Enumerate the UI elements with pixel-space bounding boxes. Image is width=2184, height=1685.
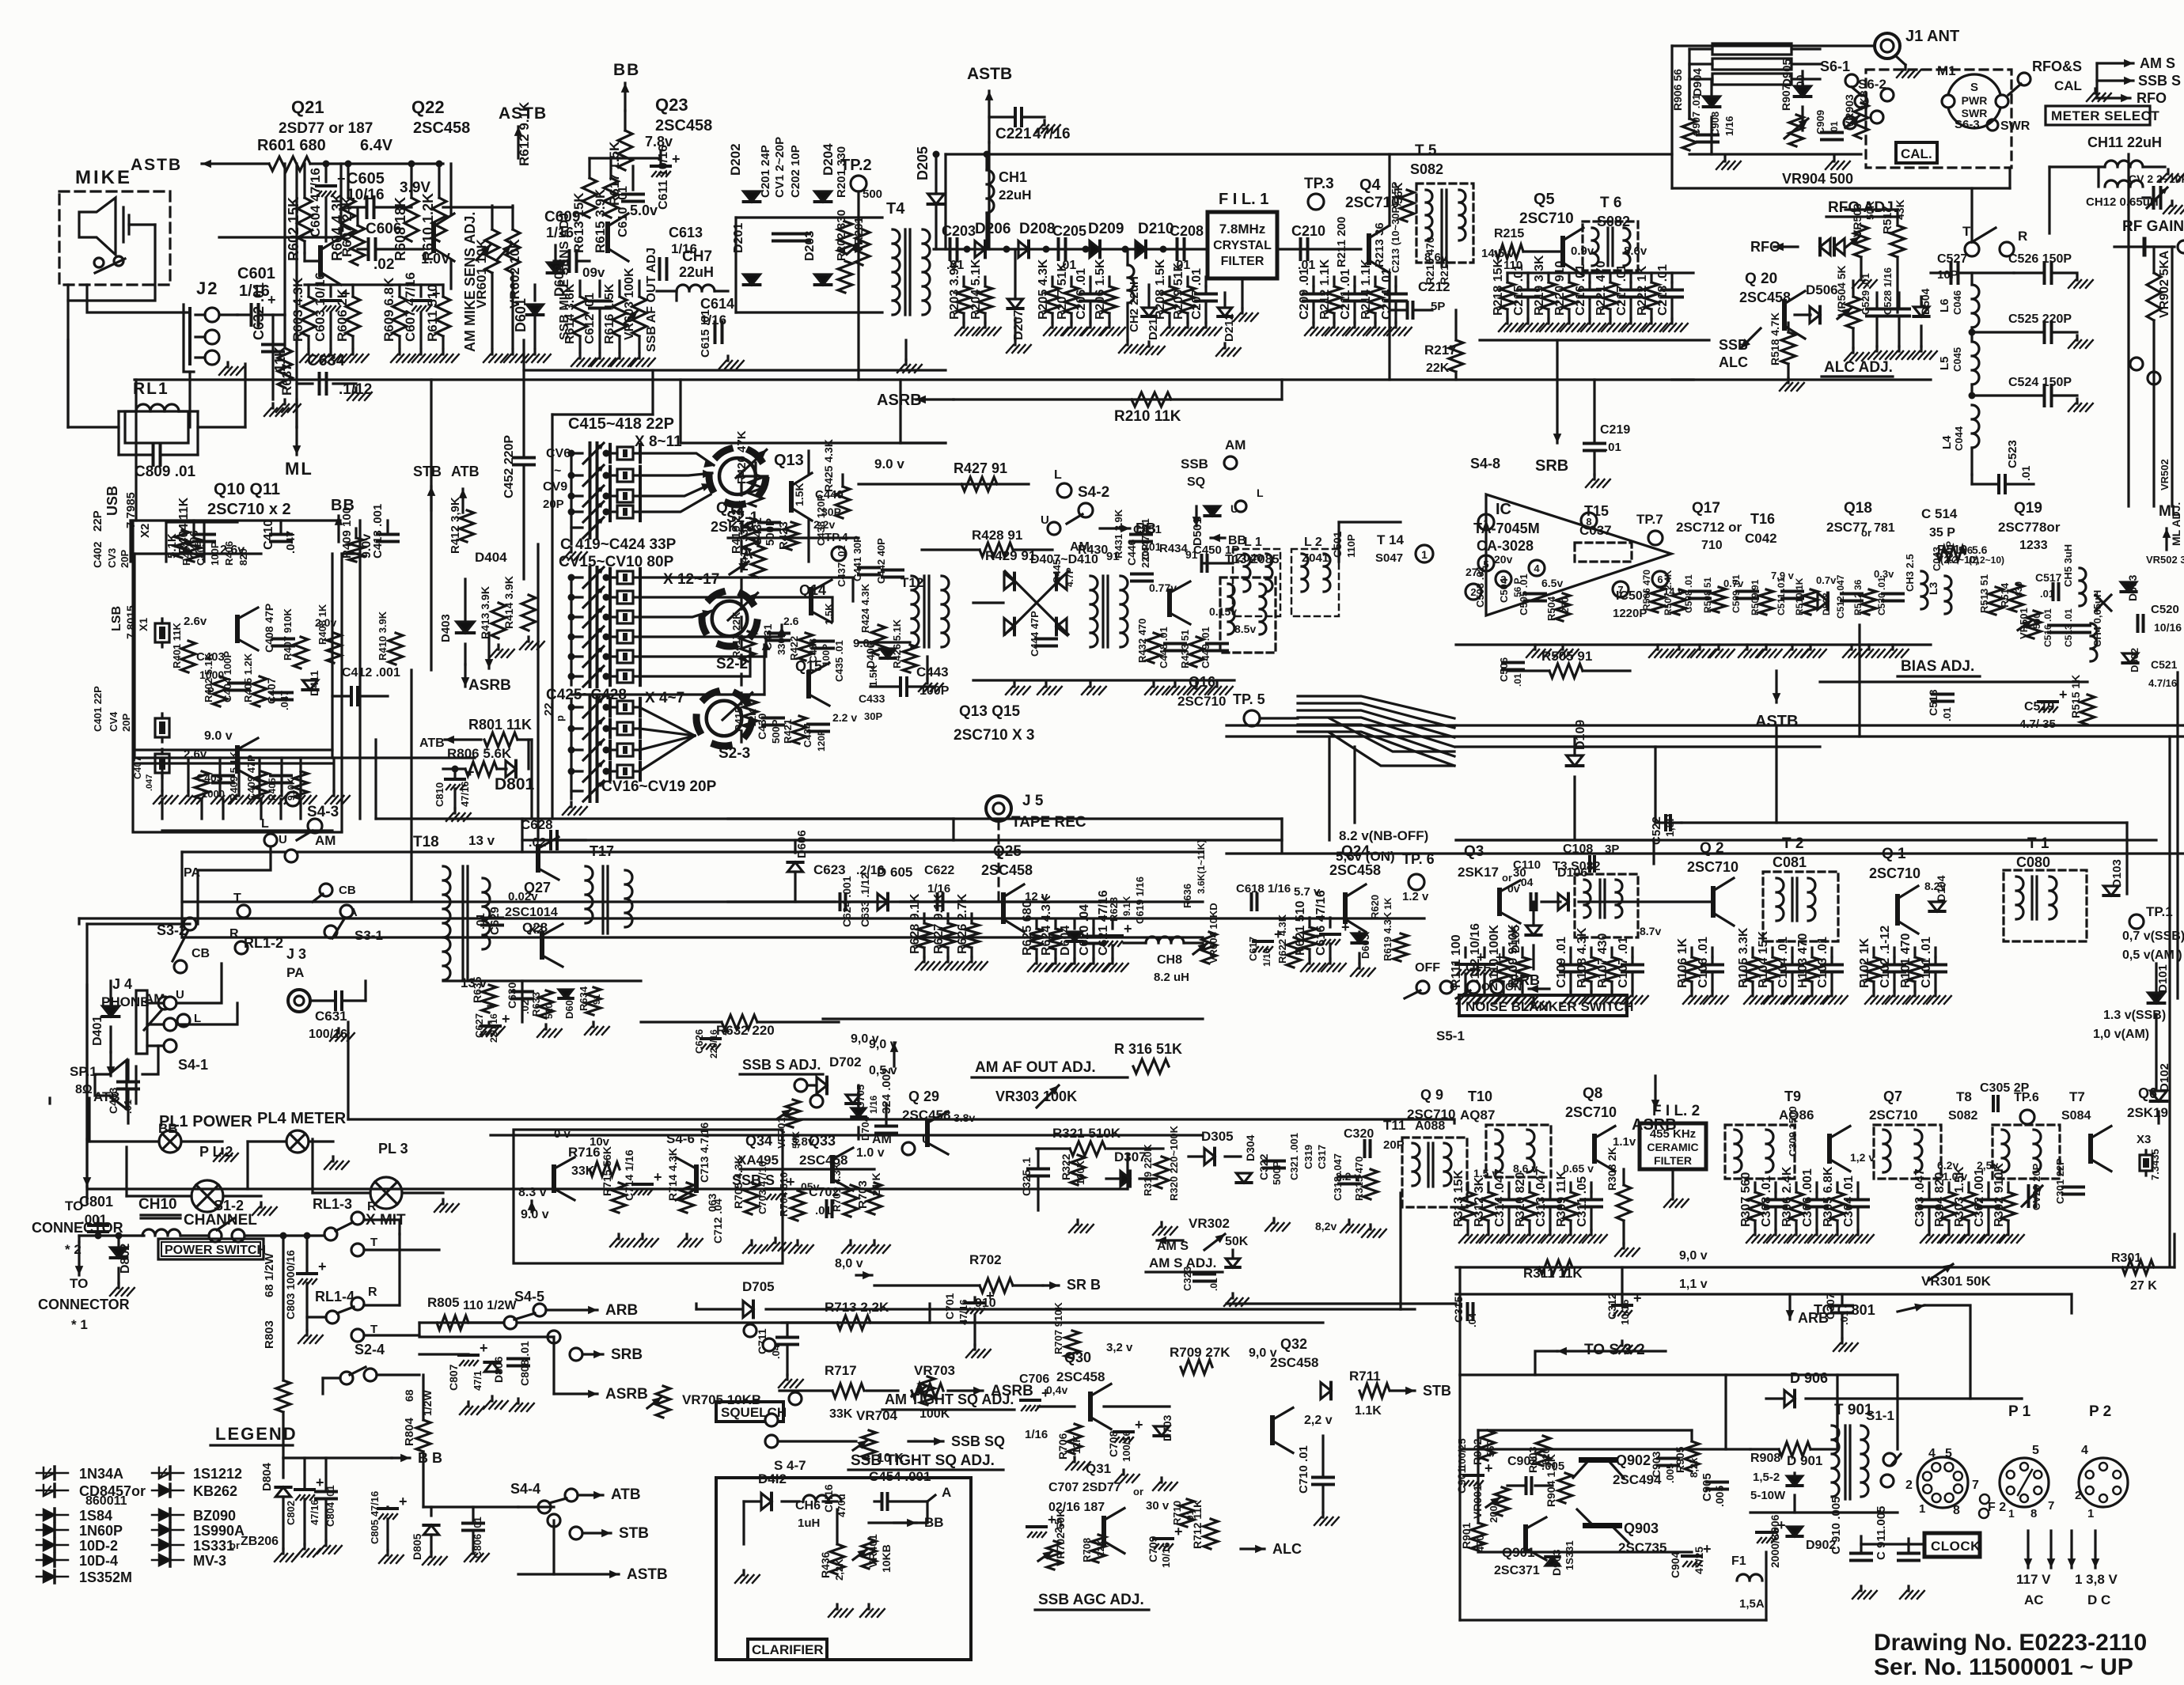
- svg-text:STB: STB: [1423, 1383, 1451, 1399]
- svg-text:C109 .01: C109 .01: [1555, 937, 1568, 988]
- svg-text:C309 1500: C309 1500: [1787, 1106, 1799, 1157]
- svg-text:1.1v: 1.1v: [1613, 1135, 1636, 1149]
- svg-text:C801: C801: [79, 1194, 113, 1210]
- svg-text:LSB: LSB: [110, 606, 123, 631]
- svg-text:ML ADJ.: ML ADJ.: [2170, 502, 2182, 546]
- svg-text:T: T: [370, 1236, 377, 1249]
- svg-text:X2: X2: [138, 524, 152, 538]
- svg-text:1.0V: 1.0V: [421, 251, 450, 267]
- svg-text:C810: C810: [434, 782, 446, 807]
- svg-text:CH2 22uH: CH2 22uH: [1128, 276, 1141, 332]
- svg-text:+: +: [1124, 921, 1132, 937]
- svg-text:L4: L4: [1940, 435, 1954, 449]
- svg-text:1S84: 1S84: [79, 1508, 112, 1524]
- svg-text:7: 7: [2048, 1499, 2054, 1513]
- svg-text:Q4: Q4: [1359, 176, 1382, 194]
- svg-text:C301 22P: C301 22P: [2054, 1158, 2066, 1204]
- svg-text:SQ: SQ: [1187, 475, 1205, 489]
- svg-text:T16: T16: [1750, 511, 1775, 527]
- svg-text:C705: C705: [855, 1085, 866, 1109]
- svg-text:C520: C520: [2151, 603, 2179, 616]
- svg-text:ASRB: ASRB: [468, 677, 511, 694]
- svg-text:.02: .02: [373, 256, 394, 273]
- svg-text:C445: C445: [1051, 559, 1063, 584]
- svg-text:C905: C905: [1701, 1473, 1714, 1501]
- svg-text:C214 .01: C214 .01: [1380, 268, 1393, 320]
- svg-text:C803 1000/16: C803 1000/16: [284, 1250, 297, 1320]
- svg-text:R312 3K: R312 3K: [1473, 1176, 1486, 1227]
- svg-text:T 2: T 2: [1782, 835, 1803, 852]
- svg-text:8.7v: 8.7v: [1640, 925, 1661, 937]
- svg-text:0.65 v: 0.65 v: [1563, 1162, 1594, 1175]
- svg-text:5: 5: [1945, 1447, 1952, 1460]
- svg-text:A: A: [942, 1485, 951, 1500]
- svg-text:PWR: PWR: [1962, 94, 1988, 107]
- svg-text:2SC458: 2SC458: [413, 119, 470, 137]
- svg-text:R505 91: R505 91: [1541, 649, 1592, 664]
- svg-text:CV 2 2~10P: CV 2 2~10P: [2129, 172, 2184, 185]
- svg-text:D704: D704: [859, 1115, 871, 1141]
- svg-text:BIAS ADJ.: BIAS ADJ.: [1901, 658, 1974, 675]
- svg-text:2SK17: 2SK17: [1458, 865, 1499, 880]
- svg-text:CH3 2.5: CH3 2.5: [1904, 554, 1916, 592]
- svg-text:C509 .01: C509 .01: [1731, 574, 1742, 613]
- svg-text:R908: R908: [1750, 1452, 1780, 1465]
- svg-text:D206: D206: [975, 221, 1010, 237]
- svg-text:R624 4.3K: R624 4.3K: [1040, 895, 1053, 956]
- svg-text:J 3: J 3: [286, 946, 306, 962]
- svg-text:C407: C407: [132, 756, 143, 779]
- svg-text:R636: R636: [1181, 884, 1193, 908]
- svg-text:20v: 20v: [1494, 553, 1513, 566]
- svg-text:S2-4: S2-4: [355, 1342, 385, 1357]
- svg-text:13 v: 13 v: [468, 833, 495, 848]
- svg-text:1: 1: [2008, 1507, 2015, 1520]
- svg-text:3.8v: 3.8v: [954, 1111, 975, 1124]
- svg-text:6.4V: 6.4V: [360, 137, 393, 154]
- svg-text:C605: C605: [347, 170, 385, 187]
- svg-text:Q19: Q19: [2014, 500, 2042, 517]
- svg-text:1.2 v: 1.2 v: [1402, 890, 1429, 903]
- svg-text:C523: C523: [2006, 440, 2019, 468]
- svg-text:R620: R620: [1369, 895, 1381, 919]
- svg-text:Q3: Q3: [1464, 843, 1484, 860]
- svg-text:500P: 500P: [770, 719, 782, 744]
- svg-text:C516 .01: C516 .01: [2042, 608, 2053, 647]
- svg-text:S084: S084: [2061, 1109, 2091, 1123]
- svg-text:T11: T11: [1383, 1118, 1405, 1133]
- svg-text:C907 .01: C907 .01: [1690, 94, 1702, 136]
- svg-text:R507 2.4K: R507 2.4K: [1663, 570, 1674, 615]
- svg-text:D210: D210: [1138, 221, 1174, 237]
- svg-text:10KB: 10KB: [880, 1544, 893, 1573]
- svg-text:R703: R703: [856, 1180, 870, 1209]
- svg-text:C626: C626: [693, 1029, 705, 1054]
- svg-text:C512 .047: C512 .047: [1835, 574, 1846, 619]
- svg-text:C513 .01: C513 .01: [2063, 608, 2074, 647]
- svg-text:2SC710 x 2: 2SC710 x 2: [207, 501, 291, 518]
- svg-text:1S1212: 1S1212: [193, 1466, 242, 1482]
- svg-text:C612 .01: C612 .01: [583, 293, 597, 344]
- svg-text:SSB AGC ADJ.: SSB AGC ADJ.: [1038, 1592, 1144, 1608]
- svg-text:1,5A: 1,5A: [1739, 1597, 1765, 1611]
- svg-text:R204 5.1K: R204 5.1K: [969, 259, 983, 320]
- svg-text:TP. 5: TP. 5: [1233, 691, 1265, 707]
- svg-text:IC: IC: [1496, 501, 1511, 518]
- svg-text:T 1: T 1: [2027, 835, 2049, 852]
- svg-text:R215: R215: [1494, 227, 1524, 240]
- svg-text:RFO: RFO: [2137, 90, 2167, 106]
- svg-text:MIKE: MIKE: [75, 167, 132, 188]
- svg-text:R212 1.1K: R212 1.1K: [1318, 259, 1332, 320]
- svg-text:J 5: J 5: [1022, 793, 1044, 809]
- svg-text:C601: C601: [237, 265, 275, 282]
- svg-text:Q28: Q28: [522, 920, 548, 935]
- svg-text:D C: D C: [2087, 1592, 2110, 1607]
- svg-text:2SC710 X 3: 2SC710 X 3: [954, 727, 1034, 744]
- svg-text:R706: R706: [1056, 1433, 1069, 1460]
- svg-text:VR603 100K: VR603 100K: [623, 267, 636, 340]
- svg-text:2SC710: 2SC710: [1869, 865, 1920, 881]
- svg-text:4: 4: [1534, 562, 1540, 574]
- svg-text:C221: C221: [995, 126, 1032, 142]
- svg-text:C604 47/16: C604 47/16: [308, 168, 323, 237]
- svg-text:R111 100: R111 100: [1450, 934, 1463, 988]
- svg-text:C045: C045: [1951, 347, 1963, 372]
- svg-text:R431 3.9K: R431 3.9K: [1113, 509, 1124, 559]
- svg-text:R806 5.6K: R806 5.6K: [447, 746, 512, 761]
- svg-text:220/16: 220/16: [488, 1013, 499, 1043]
- svg-text:RL1-3: RL1-3: [313, 1196, 352, 1212]
- svg-text:30P: 30P: [864, 710, 882, 722]
- svg-text:C807: C807: [447, 1364, 460, 1391]
- svg-text:ASRB: ASRB: [877, 392, 922, 409]
- svg-text:S4-1: S4-1: [178, 1057, 208, 1073]
- svg-text:R805: R805: [427, 1295, 460, 1310]
- svg-text:910K: 910K: [286, 778, 297, 801]
- svg-text:R106 1K: R106 1K: [1676, 937, 1689, 988]
- svg-text:+: +: [316, 1475, 324, 1490]
- svg-text:D504: D504: [1919, 288, 1932, 315]
- svg-text:R207 51K: R207 51K: [1056, 263, 1069, 320]
- svg-text:2SC710: 2SC710: [1869, 1108, 1917, 1123]
- svg-text:1/16: 1/16: [1261, 948, 1272, 967]
- svg-text:+: +: [318, 1259, 327, 1274]
- svg-text:455 KHz: 455 KHz: [1650, 1127, 1696, 1141]
- svg-text:2SC458: 2SC458: [1056, 1369, 1105, 1384]
- svg-text:R428 91: R428 91: [972, 528, 1022, 543]
- svg-text:VR904 500: VR904 500: [1782, 171, 1853, 187]
- svg-text:C046: C046: [1951, 290, 1963, 315]
- svg-text:ALC ADJ.: ALC ADJ.: [1824, 359, 1893, 376]
- svg-text:CH11 22uH: CH11 22uH: [2087, 134, 2162, 150]
- svg-text:2SC458: 2SC458: [1270, 1355, 1318, 1370]
- svg-text:R709 27K: R709 27K: [1170, 1345, 1230, 1360]
- svg-text:C321 .001: C321 .001: [1288, 1133, 1300, 1180]
- svg-text:CLOCK: CLOCK: [1931, 1539, 1981, 1554]
- svg-text:CAL: CAL: [2054, 78, 2082, 93]
- svg-text:1.5 v: 1.5 v: [1473, 1167, 1498, 1179]
- svg-text:R434: R434: [1159, 542, 1189, 555]
- svg-text:R612 9.1K: R612 9.1K: [517, 101, 532, 166]
- svg-text:T9: T9: [1784, 1089, 1801, 1104]
- svg-text:2SC710: 2SC710: [1519, 210, 1574, 227]
- svg-text:R320 220~100K: R320 220~100K: [1168, 1125, 1180, 1201]
- svg-text:R704 510: R704 510: [778, 1172, 790, 1217]
- svg-text:68 1/2W: 68 1/2W: [263, 1252, 276, 1297]
- svg-text:1N60P: 1N60P: [79, 1523, 123, 1539]
- svg-text:8.3 v: 8.3 v: [518, 1186, 547, 1199]
- svg-text:X 12~17: X 12~17: [663, 571, 719, 588]
- svg-text:1,5-2: 1,5-2: [1753, 1471, 1780, 1484]
- svg-text:2SC371: 2SC371: [1494, 1564, 1540, 1577]
- svg-text:VR701: VR701: [775, 1117, 787, 1149]
- svg-text:Q902: Q902: [1616, 1452, 1651, 1468]
- svg-text:+: +: [1777, 1517, 1786, 1533]
- svg-text:860011: 860011: [85, 1494, 127, 1508]
- svg-text:D607: D607: [563, 994, 575, 1019]
- svg-text:R628 9.1K: R628 9.1K: [908, 893, 922, 954]
- svg-text:VR602 10K: VR602 10K: [507, 238, 522, 309]
- svg-text:C521: C521: [2151, 658, 2178, 671]
- svg-text:NOISE BLANKER SWITCH: NOISE BLANKER SWITCH: [1465, 999, 1634, 1014]
- svg-text:SRB: SRB: [611, 1346, 643, 1363]
- svg-text:56K: 56K: [1392, 182, 1405, 204]
- svg-text:R415: R415: [733, 707, 745, 732]
- svg-text:Q5: Q5: [1534, 191, 1555, 208]
- svg-text:C802: C802: [285, 1501, 297, 1525]
- svg-text:S2-2: S2-2: [716, 656, 748, 672]
- svg-text:R206 1.5K: R206 1.5K: [1094, 259, 1107, 320]
- svg-text:S4-8: S4-8: [1470, 456, 1500, 471]
- svg-text:47/16: 47/16: [1033, 126, 1071, 142]
- svg-text:2SC712 or: 2SC712 or: [1676, 520, 1742, 535]
- svg-text:9.0 v: 9.0 v: [874, 456, 904, 471]
- svg-text:D305: D305: [1201, 1129, 1234, 1144]
- svg-text:2: 2: [2075, 1489, 2081, 1502]
- svg-text:2SC710: 2SC710: [1565, 1104, 1617, 1120]
- svg-text:R712 11K: R712 11K: [1191, 1500, 1204, 1549]
- svg-text:R313 15K: R313 15K: [1452, 1170, 1465, 1227]
- svg-text:9,0 v: 9,0 v: [1679, 1249, 1708, 1263]
- svg-text:~: ~: [554, 464, 561, 478]
- svg-text:.047: .047: [284, 531, 298, 554]
- svg-text:8.2 uH: 8.2 uH: [1154, 971, 1189, 984]
- svg-text:C707 2SD77: C707 2SD77: [1048, 1481, 1121, 1494]
- svg-text:C308 .01: C308 .01: [1760, 1176, 1773, 1227]
- svg-text:R611 510: R611 510: [425, 284, 440, 342]
- svg-text:* 1: * 1: [71, 1317, 88, 1332]
- svg-text:C809 .01: C809 .01: [135, 464, 196, 480]
- svg-text:T17: T17: [590, 843, 614, 859]
- svg-text:L: L: [1257, 487, 1264, 499]
- svg-text:1S331: 1S331: [1564, 1540, 1575, 1570]
- svg-text:C904: C904: [1669, 1551, 1682, 1578]
- svg-text:R205 4.3K: R205 4.3K: [1037, 259, 1050, 320]
- svg-text:R211 200: R211 200: [1335, 217, 1348, 267]
- svg-text:D508: D508: [1821, 593, 1832, 615]
- svg-text:F 2: F 2: [1988, 1501, 2006, 1514]
- svg-text:C623: C623: [813, 862, 846, 877]
- svg-text:CHANNEL: CHANNEL: [184, 1212, 257, 1229]
- svg-text:D905: D905: [1780, 59, 1794, 87]
- svg-text:R906 56: R906 56: [1671, 69, 1684, 111]
- svg-text:R315 470: R315 470: [1353, 1157, 1365, 1201]
- svg-text:1,1 v: 1,1 v: [1679, 1278, 1708, 1291]
- svg-text:T 6: T 6: [1600, 195, 1621, 211]
- svg-text:R110 100K: R110 100K: [1488, 924, 1501, 988]
- svg-text:VR601 10K: VR601 10K: [474, 238, 489, 309]
- svg-text:D4I2: D4I2: [758, 1471, 787, 1486]
- svg-text:C613: C613: [669, 225, 703, 240]
- svg-text:RL1-4: RL1-4: [315, 1289, 355, 1304]
- svg-text:D806: D806: [492, 1356, 505, 1383]
- svg-text:SSB: SSB: [1181, 456, 1208, 471]
- svg-text:R405: R405: [267, 778, 278, 801]
- svg-text:8: 8: [2030, 1507, 2037, 1520]
- svg-text:C517: C517: [2035, 571, 2062, 584]
- svg-text:2SC710: 2SC710: [1687, 859, 1738, 875]
- svg-text:AM: AM: [1225, 437, 1246, 452]
- svg-text:C607 47/16: C607 47/16: [403, 272, 418, 342]
- svg-text:R322: R322: [1060, 1153, 1072, 1180]
- svg-text:R214 1.1K: R214 1.1K: [1359, 259, 1373, 320]
- svg-text:R216 470: R216 470: [1424, 237, 1436, 285]
- svg-text:10D-2: 10D-2: [79, 1538, 118, 1554]
- svg-text:C444 47P: C444 47P: [1029, 611, 1041, 657]
- svg-text:1233: 1233: [2019, 539, 2048, 552]
- svg-text:R625 680: R625 680: [1021, 901, 1034, 956]
- svg-text:R104 15K: R104 15K: [1757, 931, 1770, 988]
- svg-text:or: or: [1133, 1486, 1143, 1498]
- svg-text:8.2 v(NB-OFF): 8.2 v(NB-OFF): [1339, 828, 1428, 843]
- svg-text:C614: C614: [700, 296, 734, 312]
- svg-text:2.6v: 2.6v: [184, 748, 207, 761]
- svg-text:PL4 METER: PL4 METER: [257, 1110, 347, 1127]
- svg-text:C434: C434: [802, 722, 813, 748]
- svg-text:CLARIFIER: CLARIFIER: [752, 1642, 824, 1657]
- svg-text:R514: R514: [1999, 582, 2011, 608]
- svg-text:1S331: 1S331: [193, 1538, 234, 1554]
- svg-text:R302 910K: R302 910K: [1993, 1163, 2006, 1227]
- svg-text:50K: 50K: [791, 1131, 802, 1149]
- svg-text:6.5v: 6.5v: [1541, 577, 1563, 589]
- svg-text:R429 91: R429 91: [985, 548, 1036, 563]
- svg-text:1N34A: 1N34A: [79, 1466, 123, 1482]
- svg-text:C449 .01: C449 .01: [1200, 627, 1211, 668]
- svg-text:R714 4.3K: R714 4.3K: [666, 1148, 679, 1201]
- svg-text:CERAMIC: CERAMIC: [1647, 1141, 1698, 1153]
- svg-text:C401 22P: C401 22P: [92, 686, 104, 732]
- svg-text:S3-1: S3-1: [355, 928, 383, 943]
- svg-text:R711: R711: [1349, 1369, 1381, 1384]
- svg-text:47/16: 47/16: [309, 1499, 320, 1525]
- svg-text:D705: D705: [742, 1279, 775, 1294]
- svg-text:0,7 v(SSB): 0,7 v(SSB): [2122, 930, 2184, 943]
- svg-text:D404: D404: [475, 550, 507, 565]
- svg-text:TP.6: TP.6: [2014, 1091, 2039, 1104]
- svg-text:R506 470: R506 470: [1641, 570, 1652, 611]
- svg-text:R409 5.1K: R409 5.1K: [228, 751, 240, 801]
- svg-text:7.8MHz: 7.8MHz: [1219, 222, 1266, 237]
- svg-text:LEGEND: LEGEND: [215, 1424, 298, 1444]
- svg-text:CAL.: CAL.: [1901, 146, 1932, 161]
- svg-text:T7: T7: [2069, 1089, 2085, 1104]
- svg-text:R804: R804: [403, 1417, 416, 1446]
- svg-text:C101 .01: C101 .01: [1920, 937, 1933, 988]
- svg-text:D805: D805: [411, 1533, 423, 1560]
- svg-text:CH10: CH10: [138, 1196, 177, 1213]
- svg-text:C302 .001: C302 .001: [1973, 1168, 1986, 1227]
- svg-text:VR301 50K: VR301 50K: [1921, 1274, 1992, 1289]
- svg-text:T 5: T 5: [1415, 142, 1437, 159]
- svg-text:PA: PA: [286, 965, 304, 980]
- svg-text:C317: C317: [1316, 1145, 1328, 1169]
- svg-text:0: 0: [0, 0, 9, 4]
- svg-text:P 1: P 1: [2008, 1403, 2031, 1420]
- svg-text:35 P: 35 P: [1929, 526, 1955, 540]
- svg-text:2: 2: [1905, 1479, 1913, 1492]
- svg-text:Q23: Q23: [655, 95, 688, 115]
- svg-text:R409 100: R409 100: [340, 507, 354, 559]
- svg-text:TP.3: TP.3: [1304, 176, 1334, 192]
- svg-text:D202: D202: [728, 143, 743, 176]
- svg-text:RF GAIN: RF GAIN: [2122, 218, 2184, 235]
- svg-text:D304: D304: [1244, 1134, 1257, 1161]
- svg-text:Q21: Q21: [291, 97, 324, 117]
- svg-text:R627 9.1K: R627 9.1K: [932, 893, 946, 954]
- svg-text:C 910 .005: C 910 .005: [1829, 1497, 1843, 1554]
- svg-text:+: +: [502, 1011, 510, 1027]
- svg-text:R609 6.8K: R609 6.8K: [381, 277, 396, 342]
- svg-text:CV20 20P: CV20 20P: [2030, 1163, 2042, 1210]
- svg-text:D103: D103: [2110, 859, 2124, 888]
- svg-text:C315: C315: [1452, 1296, 1465, 1323]
- svg-text:C619 1/16: C619 1/16: [1134, 877, 1146, 924]
- svg-text:Q13: Q13: [774, 452, 804, 469]
- svg-text:C628: C628: [521, 817, 553, 832]
- svg-text:PL1 POWER: PL1 POWER: [159, 1113, 252, 1130]
- svg-text:1.1K: 1.1K: [1355, 1404, 1382, 1418]
- svg-text:J 4: J 4: [112, 976, 132, 992]
- svg-text:Q 9: Q 9: [1420, 1087, 1443, 1103]
- svg-text:S4-4: S4-4: [510, 1481, 540, 1497]
- svg-text:C511 .01: C511 .01: [1776, 577, 1787, 615]
- svg-text:R425 4.3K: R425 4.3K: [822, 439, 835, 492]
- svg-text:C320: C320: [1344, 1127, 1374, 1141]
- svg-text:ARB: ARB: [605, 1302, 638, 1319]
- svg-text:C201 24P: C201 24P: [759, 145, 772, 198]
- svg-text:R: R: [367, 1200, 377, 1214]
- svg-text:C453: C453: [107, 1087, 119, 1114]
- svg-text:X1: X1: [137, 618, 150, 631]
- svg-text:D601: D601: [513, 298, 529, 332]
- svg-text:R518 4.7K: R518 4.7K: [1769, 312, 1781, 365]
- svg-text:TP.7: TP.7: [1636, 512, 1663, 527]
- svg-text:C 514: C 514: [1921, 506, 1958, 521]
- svg-text:FILTER: FILTER: [1654, 1154, 1692, 1167]
- svg-text:R 316 51K: R 316 51K: [1114, 1041, 1182, 1057]
- svg-text:+: +: [986, 1288, 995, 1304]
- svg-text:SSB: SSB: [1719, 337, 1748, 353]
- svg-text:C504: C504: [1498, 577, 1510, 603]
- svg-text:Q18: Q18: [1844, 500, 1872, 517]
- svg-text:1: 1: [1421, 548, 1428, 561]
- svg-text:OFF: OFF: [1465, 961, 1491, 975]
- svg-text:T4: T4: [886, 200, 905, 218]
- svg-text:C713 4.7/16: C713 4.7/16: [698, 1123, 711, 1183]
- svg-text:R220 910: R220 910: [1553, 261, 1567, 316]
